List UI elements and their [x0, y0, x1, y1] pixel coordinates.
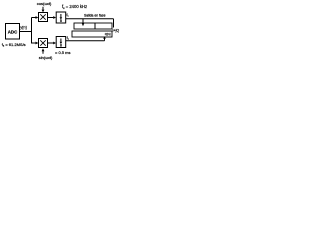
- svg-text:8: 8: [60, 43, 62, 47]
- svg-text:Q[n]: Q[n]: [105, 32, 111, 36]
- svg-text:fs = 2400 kHz: fs = 2400 kHz: [62, 4, 87, 10]
- svg-text:Salida en fase: Salida en fase: [84, 14, 106, 18]
- svg-text:8: 8: [60, 19, 62, 23]
- svg-text:fs: fs: [67, 36, 70, 41]
- svg-text:ADC: ADC: [8, 30, 18, 35]
- svg-text:I+jQ: I+jQ: [113, 28, 120, 32]
- svg-text:fs: fs: [67, 13, 70, 18]
- svg-text:y[n]: y[n]: [20, 24, 26, 29]
- svg-text:fs = 61.2MS/s: fs = 61.2MS/s: [2, 42, 26, 48]
- svg-text:sin(ω0t): sin(ω0t): [39, 55, 53, 60]
- svg-text:= 0.5 ms: = 0.5 ms: [55, 50, 70, 55]
- svg-text:cos(ω0t): cos(ω0t): [37, 1, 52, 6]
